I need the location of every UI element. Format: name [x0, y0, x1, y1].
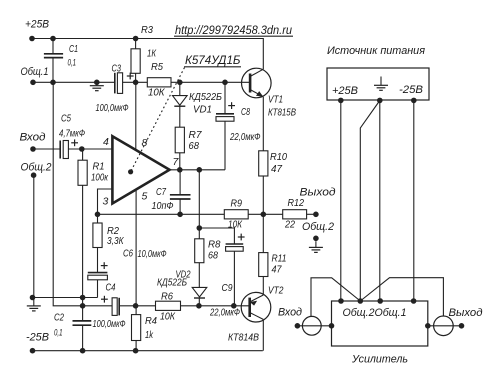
svg-text:1К: 1К: [147, 48, 157, 60]
svg-text:100,0мкФ: 100,0мкФ: [96, 103, 129, 114]
svg-text:10,0мкФ: 10,0мкФ: [138, 249, 167, 260]
svg-text:4,7мкФ: 4,7мкФ: [59, 129, 85, 140]
svg-text:-25В: -25В: [26, 332, 49, 344]
svg-text:68: 68: [208, 250, 218, 262]
svg-text:0,1: 0,1: [54, 328, 63, 339]
svg-text:C5: C5: [61, 113, 71, 125]
svg-text:10пФ: 10пФ: [152, 201, 174, 212]
svg-text:КД522Б: КД522Б: [189, 91, 222, 103]
svg-text:R3: R3: [141, 24, 153, 36]
svg-text:Общ.1: Общ.1: [21, 66, 49, 78]
svg-text:К574УД1Б: К574УД1Б: [185, 55, 241, 67]
svg-text:Общ.2: Общ.2: [302, 221, 334, 233]
svg-text:4: 4: [103, 136, 109, 148]
svg-text:VT1: VT1: [268, 95, 283, 106]
svg-text:http://299792458.3dn.ru: http://299792458.3dn.ru: [175, 25, 293, 37]
svg-text:47: 47: [271, 163, 283, 175]
svg-text:100к: 100к: [91, 173, 109, 184]
svg-text:10К: 10К: [228, 219, 243, 231]
svg-text:R12: R12: [288, 197, 305, 209]
svg-text:VT2: VT2: [268, 286, 284, 297]
svg-text:КД522Б: КД522Б: [157, 278, 187, 289]
svg-text:3: 3: [103, 196, 109, 208]
svg-text:+25В: +25В: [25, 19, 49, 31]
svg-text:R9: R9: [231, 198, 243, 210]
svg-text:Выход: Выход: [300, 187, 336, 199]
svg-text:8: 8: [142, 137, 148, 149]
svg-text:47: 47: [272, 264, 283, 276]
svg-text:5: 5: [142, 191, 148, 203]
svg-text:1k: 1k: [145, 329, 154, 341]
svg-text:10К: 10К: [148, 87, 165, 99]
svg-text:C9: C9: [222, 282, 233, 294]
svg-text:Общ.2Общ.1: Общ.2Общ.1: [343, 307, 407, 319]
svg-text:C3: C3: [112, 63, 122, 75]
svg-text:22,0мкФ: 22,0мкФ: [209, 308, 240, 319]
svg-text:Источник питания: Источник питания: [327, 45, 425, 57]
svg-text:VD1: VD1: [193, 104, 212, 116]
svg-text:C2: C2: [54, 312, 64, 324]
svg-text:R5: R5: [151, 61, 163, 73]
svg-text:КТ814В: КТ814В: [228, 333, 259, 344]
svg-text:22,0мкФ: 22,0мкФ: [229, 132, 260, 143]
svg-text:C6: C6: [123, 248, 133, 260]
svg-text:Усилитель: Усилитель: [351, 354, 408, 366]
svg-text:100,0мкФ: 100,0мкФ: [93, 319, 126, 330]
svg-text:R10: R10: [270, 151, 287, 163]
svg-text:3,3К: 3,3К: [107, 236, 124, 247]
svg-text:0,1: 0,1: [68, 58, 77, 69]
svg-text:C1: C1: [69, 43, 78, 55]
svg-text:Вход: Вход: [20, 132, 46, 144]
svg-text:22: 22: [284, 219, 295, 231]
svg-text:Вход: Вход: [278, 307, 302, 319]
svg-text:R6: R6: [161, 291, 173, 303]
svg-text:68: 68: [189, 140, 200, 152]
svg-text:R1: R1: [93, 161, 105, 173]
svg-text:R4: R4: [145, 315, 157, 327]
svg-text:C7: C7: [156, 186, 167, 198]
svg-text:-25В: -25В: [399, 84, 423, 96]
svg-text:Выход: Выход: [449, 307, 483, 319]
svg-text:+25В: +25В: [332, 85, 358, 97]
svg-text:C8: C8: [241, 106, 250, 118]
svg-text:Общ.2: Общ.2: [21, 162, 52, 174]
svg-text:10К: 10К: [160, 311, 176, 323]
svg-text:C4: C4: [106, 282, 116, 294]
svg-text:КТ815В: КТ815В: [268, 108, 296, 119]
